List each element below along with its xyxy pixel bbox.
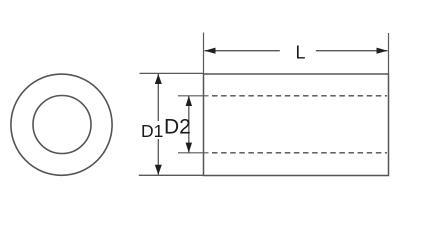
dimension line L (right segment with arrow) [316, 48, 388, 54]
extension line bottom for D1 [139, 174, 204, 176]
svg-text:D2: D2 [164, 116, 191, 139]
cylinder body (side view rectangle) [204, 74, 389, 176]
extension line top for D1 [140, 72, 204, 74]
dimension line D1 (bottom segment with arrow) [155, 139, 162, 175]
extension line bottom for D2 [178, 152, 209, 154]
extension line left for L [203, 33, 205, 75]
hidden line bottom (bore) [212, 152, 387, 154]
dimension line D1 (top segment with arrow) [155, 74, 162, 121]
hidden line top (bore) [212, 95, 387, 97]
outer circle (front view, diameter D1) [11, 74, 112, 175]
dimension line D2 with arrows [186, 96, 192, 153]
inner circle (front view, bore diameter D2) [33, 96, 91, 154]
extension line right for L [388, 33, 390, 74]
extension line top for D2 [178, 95, 209, 97]
svg-text:D1: D1 [141, 121, 163, 141]
svg-text:L: L [296, 43, 306, 63]
dimension line L (left segment with arrow) [205, 48, 280, 54]
